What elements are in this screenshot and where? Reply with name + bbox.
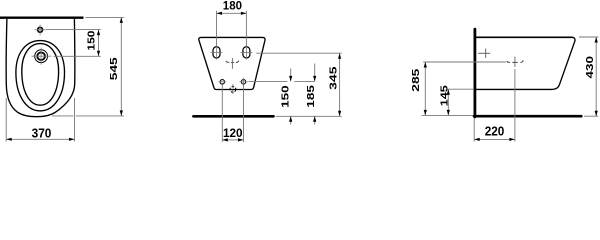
ext 430 top [579, 36, 598, 38]
dim 150 left [98, 30, 100, 57]
tap hole [35, 50, 48, 63]
ext circles right (185) [249, 80, 288, 82]
bidet outline [6, 19, 75, 117]
dim 120 [222, 139, 243, 141]
drain ext down to 220 [514, 69, 516, 142]
ext slots right (345) [256, 52, 341, 54]
ext 120 left [221, 84, 223, 141]
ceramic top edge [476, 36, 573, 38]
ext small hole [46, 29, 101, 31]
ext 370 left [5, 98, 7, 142]
ext 120 right [243, 84, 245, 141]
dim 185 [314, 64, 316, 82]
trapezoid body [199, 37, 265, 89]
dim 180 [217, 12, 247, 14]
ext 430 bottom [584, 115, 598, 117]
dim 145 [447, 89, 449, 115]
ext 180 left [216, 11, 218, 46]
floor line middle [193, 115, 273, 118]
right slot [243, 47, 250, 58]
ceramic front + bottom [476, 37, 575, 89]
svg-text:370: 370 [32, 125, 52, 140]
svg-text:145: 145 [439, 85, 450, 106]
ext 370 right [74, 98, 76, 142]
dim 430 [595, 37, 597, 116]
ext outline bottom [52, 115, 73, 117]
svg-text:545: 545 [109, 57, 120, 80]
drain dashed circle [230, 87, 236, 93]
dim 370 [6, 138, 74, 140]
right bolt circle [241, 80, 246, 85]
basin outer rim [16, 41, 65, 111]
svg-text:150: 150 [87, 30, 98, 50]
small hole [38, 27, 43, 32]
basin inner rim [22, 44, 59, 106]
svg-text:220: 220 [485, 124, 505, 139]
svg-text:150: 150 [281, 85, 292, 108]
dim 545 [120, 17, 122, 116]
svg-text:285: 285 [411, 68, 422, 91]
ext 285 (drain height) [423, 61, 506, 63]
dim 285 [424, 62, 426, 115]
center dashed mark (tap) [226, 61, 229, 63]
ext 180 right [245, 11, 247, 46]
left slot [213, 47, 220, 58]
floor line right [474, 115, 581, 118]
ext floor left [422, 114, 474, 116]
svg-text:180: 180 [223, 0, 242, 13]
wall [0, 17, 84, 19]
dim 345 [339, 53, 341, 116]
ext 220 left (wall) [473, 118, 475, 142]
left bolt circle [220, 80, 225, 85]
svg-text:345: 345 [329, 66, 340, 90]
ext floor right [276, 115, 342, 117]
svg-text:185: 185 [306, 85, 317, 108]
drain dashed mark [507, 61, 510, 62]
svg-text:120: 120 [223, 126, 243, 140]
wall vertical [473, 29, 476, 117]
bolt cross mark [478, 52, 490, 54]
dim 220 [474, 138, 515, 140]
dim 150 middle [290, 69, 292, 82]
svg-text:430: 430 [585, 56, 596, 79]
ext 145 (bottom edge) [446, 88, 474, 90]
ext tap hole [54, 55, 101, 57]
ext wall top [86, 16, 124, 18]
